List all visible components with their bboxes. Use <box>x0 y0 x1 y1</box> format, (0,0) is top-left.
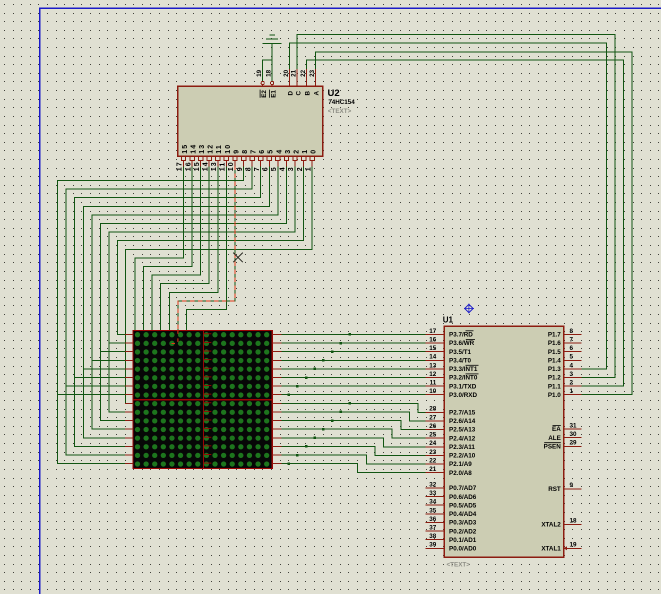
svg-text:RST: RST <box>548 486 561 493</box>
svg-text:2: 2 <box>293 149 300 154</box>
svg-text:P2.7/A15: P2.7/A15 <box>449 410 476 417</box>
svg-text:6: 6 <box>570 345 574 352</box>
wire ground to U2 E1 pin 18 <box>271 43 273 81</box>
wire matrix row 15 to U1 P2.1 <box>281 455 426 464</box>
svg-text:5: 5 <box>271 166 278 171</box>
svg-text:11: 11 <box>216 144 223 154</box>
wire matrix row 16 to U1 P2.0 <box>281 464 426 473</box>
wire U2 pin 20 D to U1 P1.3 <box>289 43 606 369</box>
svg-text:11: 11 <box>430 380 437 387</box>
svg-text:14: 14 <box>202 161 209 171</box>
svg-text:P2.4/A12: P2.4/A12 <box>449 435 476 442</box>
dashed wire visible over matrix <box>171 330 178 343</box>
svg-text:34: 34 <box>429 499 437 506</box>
svg-text:13: 13 <box>199 144 206 154</box>
wire U2 pin 8 to matrix left <box>66 166 252 455</box>
svg-text:14: 14 <box>429 354 437 361</box>
svg-text:1: 1 <box>570 388 574 395</box>
wire U2 pin 4 to matrix left <box>101 166 287 421</box>
svg-text:1: 1 <box>302 149 309 154</box>
svg-text:38: 38 <box>429 533 437 540</box>
svg-text:P0.5/AD5: P0.5/AD5 <box>449 502 477 509</box>
svg-text:16: 16 <box>185 161 192 171</box>
wire U2 pin 14 to matrix top <box>161 166 210 330</box>
U1 origin marker <box>464 304 474 314</box>
svg-text:B: B <box>305 91 312 96</box>
svg-text:P0.6/AD6: P0.6/AD6 <box>449 494 477 501</box>
wire U2 pin 1 to matrix left <box>125 166 312 403</box>
svg-text:12: 12 <box>429 371 437 378</box>
svg-text:23: 23 <box>309 69 316 77</box>
svg-text:4: 4 <box>276 149 283 154</box>
wire matrix row 12 to U1 P2.4 <box>281 429 426 438</box>
svg-text:21: 21 <box>291 69 298 77</box>
matrix centre column pin arrows <box>204 334 211 463</box>
svg-text:3: 3 <box>285 149 292 154</box>
matrix LED dots <box>135 332 269 467</box>
wire matrix row 13 to U1 P2.3 <box>281 438 426 447</box>
svg-text:31: 31 <box>570 422 578 429</box>
wire U2 pin 11 to matrix top <box>187 166 227 330</box>
svg-text:P2.2/A10: P2.2/A10 <box>449 453 476 460</box>
svg-text:10: 10 <box>228 161 235 171</box>
svg-text:15: 15 <box>182 144 189 154</box>
svg-text:19: 19 <box>256 69 263 77</box>
svg-text:9: 9 <box>237 166 244 171</box>
wire matrix row 1 to U1 P3.7 <box>281 333 426 335</box>
wire U2 pin 6 to matrix left <box>83 166 269 438</box>
svg-text:5: 5 <box>570 354 574 361</box>
wire U2 pin 21 C to U1 P1.2 <box>297 34 615 377</box>
wire matrix row 6 to U1 P3.2 <box>281 377 426 379</box>
svg-text:14: 14 <box>190 144 197 154</box>
wire U2 pin 5 to matrix left <box>92 166 278 429</box>
wire U2 pin 7 to matrix left <box>75 166 261 446</box>
ground <box>263 35 281 43</box>
svg-text:13: 13 <box>211 161 218 171</box>
svg-text:10: 10 <box>429 388 437 395</box>
svg-text:19: 19 <box>570 542 578 549</box>
IC U1 8051 MCU <box>444 326 563 557</box>
svg-text:EA: EA <box>552 426 561 433</box>
U2 pin number labels bottom outside <box>177 161 313 171</box>
svg-text:P2.0/A8: P2.0/A8 <box>449 470 472 477</box>
svg-text:22: 22 <box>429 457 437 464</box>
wire U2 pin 9 to matrix left <box>58 166 244 464</box>
wire matrix row 14 to U1 P2.2 <box>281 446 426 455</box>
svg-text:32: 32 <box>429 481 437 488</box>
wire U2 pin 23 A to U1 P1.0 <box>315 52 632 395</box>
svg-text:29: 29 <box>570 440 578 447</box>
svg-text:2: 2 <box>570 380 574 387</box>
U1 right pins P1 <box>548 328 582 399</box>
svg-text:P2.5/A13: P2.5/A13 <box>449 427 476 434</box>
svg-text:P3.4/T0: P3.4/T0 <box>449 357 472 364</box>
svg-text:7: 7 <box>570 336 574 343</box>
wire U2 pin 3 to matrix left <box>109 166 295 412</box>
svg-text:6: 6 <box>259 149 266 154</box>
svg-text:33: 33 <box>429 490 437 497</box>
svg-text:7: 7 <box>251 149 258 154</box>
svg-text:P3.0/RXD: P3.0/RXD <box>449 392 477 399</box>
svg-text:9: 9 <box>570 482 574 489</box>
svg-text:P0.4/AD4: P0.4/AD4 <box>449 511 477 518</box>
svg-text:P0.7/AD7: P0.7/AD7 <box>449 485 477 492</box>
svg-text:P3.7/RD: P3.7/RD <box>449 332 473 339</box>
svg-text:17: 17 <box>177 161 184 171</box>
svg-text:A: A <box>314 91 321 96</box>
svg-text:23: 23 <box>429 449 437 456</box>
U2 pin name labels top inside <box>260 90 320 98</box>
wire matrix row 3 to U1 P3.5 <box>281 351 426 353</box>
svg-text:12: 12 <box>208 144 215 154</box>
svg-text:XTAL2: XTAL2 <box>541 522 561 529</box>
svg-text:6: 6 <box>263 166 270 171</box>
svg-text:U2: U2 <box>328 88 340 99</box>
wire matrix row 5 to U1 P3.3 <box>281 368 426 370</box>
wire U2 pin 2 to matrix left <box>118 166 304 334</box>
svg-text:36: 36 <box>429 516 437 523</box>
matrix left pins <box>125 334 133 463</box>
wire matrix row 11 to U1 P2.5 <box>281 421 426 430</box>
wire matrix row 10 to U1 P2.6 <box>281 412 426 421</box>
svg-text:C: C <box>295 91 302 96</box>
svg-text:U1: U1 <box>443 316 454 325</box>
wire U2 pin 22 B to U1 P1.1 <box>307 60 624 386</box>
svg-text:7: 7 <box>254 166 261 171</box>
svg-text:0: 0 <box>311 149 318 154</box>
svg-text:P3.2/INT0: P3.2/INT0 <box>449 375 478 382</box>
matrix right pins <box>272 334 282 463</box>
svg-text:27: 27 <box>429 414 437 421</box>
svg-text:D: D <box>288 91 295 96</box>
svg-text:1: 1 <box>305 166 312 171</box>
svg-text:P0.2/AD2: P0.2/AD2 <box>449 528 477 535</box>
U1 right control pins <box>541 422 581 552</box>
svg-text:P1.6: P1.6 <box>548 340 561 347</box>
svg-text:ALE: ALE <box>548 435 561 442</box>
svg-text:P0.1/AD1: P0.1/AD1 <box>449 537 477 544</box>
svg-text:8: 8 <box>245 166 252 171</box>
junction X marker <box>233 253 243 263</box>
IC U2 74HC154 4-to-16 decoder <box>178 69 323 166</box>
svg-text:35: 35 <box>429 507 437 514</box>
svg-text:4: 4 <box>280 166 287 171</box>
svg-text:P3.3/INT1: P3.3/INT1 <box>449 366 478 373</box>
svg-text:E1: E1 <box>270 90 277 98</box>
svg-text:3: 3 <box>570 371 574 378</box>
svg-text:P1.0: P1.0 <box>548 392 561 399</box>
svg-text:17: 17 <box>429 328 437 335</box>
wire U2 pin 13 to matrix top <box>169 166 218 330</box>
svg-text:9: 9 <box>233 149 240 154</box>
svg-text:P3.5/T1: P3.5/T1 <box>449 349 472 356</box>
wire ground branch to U2 E2 pin 19 <box>263 60 272 81</box>
svg-text:37: 37 <box>429 525 437 532</box>
U1 left pins P2 <box>425 406 475 477</box>
svg-text:13: 13 <box>429 362 437 369</box>
svg-text:P1.4: P1.4 <box>548 357 561 364</box>
svg-text:P3.1/TXD: P3.1/TXD <box>449 383 477 390</box>
svg-text:15: 15 <box>429 345 437 352</box>
svg-text:PSEN: PSEN <box>544 444 562 451</box>
U1 left pins P3 <box>425 328 477 399</box>
svg-text:4: 4 <box>570 362 574 369</box>
svg-text:18: 18 <box>266 69 273 77</box>
svg-text:P0.3/AD3: P0.3/AD3 <box>449 520 477 527</box>
wire matrix row 2 to U1 P3.6 <box>281 342 426 344</box>
wire U2 pin 15 to matrix top <box>152 166 201 330</box>
svg-text:30: 30 <box>570 431 578 438</box>
svg-text:26: 26 <box>429 423 437 430</box>
wire U2 pin 16 to matrix top <box>144 166 193 330</box>
svg-text:11: 11 <box>220 161 227 171</box>
svg-text:2: 2 <box>297 166 304 171</box>
wire matrix row 8 to U1 P3.0 <box>281 394 426 396</box>
svg-text:P1.3: P1.3 <box>548 366 561 373</box>
svg-text:E2: E2 <box>261 90 268 98</box>
svg-text:<TEXT>: <TEXT> <box>328 108 352 115</box>
U1 XTAL1 input arrow <box>564 546 567 550</box>
svg-text:74HC154: 74HC154 <box>328 99 355 106</box>
svg-text:P1.2: P1.2 <box>548 375 561 382</box>
svg-text:39: 39 <box>429 542 437 549</box>
svg-text:P1.1: P1.1 <box>548 383 561 390</box>
svg-text:15: 15 <box>194 161 201 171</box>
svg-text:P3.6/WR: P3.6/WR <box>449 340 475 347</box>
svg-text:21: 21 <box>429 466 437 473</box>
svg-text:5: 5 <box>268 149 275 154</box>
svg-text:18: 18 <box>570 518 578 525</box>
svg-text:22: 22 <box>300 69 307 77</box>
svg-text:P1.5: P1.5 <box>548 349 561 356</box>
svg-text:20: 20 <box>283 69 290 77</box>
svg-text:P2.6/A14: P2.6/A14 <box>449 418 476 425</box>
wire matrix row 9 to U1 P2.7 <box>281 403 426 412</box>
svg-text:P2.1/A9: P2.1/A9 <box>449 461 472 468</box>
wire matrix row 7 to U1 P3.1 <box>281 385 426 387</box>
svg-text:XTAL1: XTAL1 <box>541 546 561 553</box>
svg-text:16: 16 <box>429 336 437 343</box>
wire U2 pin 17 to matrix top <box>135 166 184 330</box>
U2 reference labels <box>328 88 356 115</box>
svg-text:8: 8 <box>570 328 574 335</box>
svg-text:24: 24 <box>429 440 437 447</box>
wire U2 pin 10 (highlighted dashed) to matrix <box>171 166 235 344</box>
svg-text:8: 8 <box>242 149 249 154</box>
svg-text:P1.7: P1.7 <box>548 332 561 339</box>
svg-text:28: 28 <box>429 406 437 413</box>
svg-text:<TEXT>: <TEXT> <box>447 562 471 569</box>
U2 output number labels bottom inside <box>182 144 318 154</box>
U1 overlines for active-low names <box>466 331 561 443</box>
U2 pin number labels top <box>256 69 316 77</box>
svg-text:25: 25 <box>429 432 437 439</box>
svg-text:P0.0/AD0: P0.0/AD0 <box>449 546 477 553</box>
U1 left pins P0 <box>425 481 476 552</box>
svg-text:P2.3/A11: P2.3/A11 <box>449 444 475 451</box>
16x16 LED dot matrix display <box>133 330 272 468</box>
wire matrix row 4 to U1 P3.4 <box>281 359 426 361</box>
svg-text:10: 10 <box>225 144 232 154</box>
svg-text:3: 3 <box>288 166 295 171</box>
